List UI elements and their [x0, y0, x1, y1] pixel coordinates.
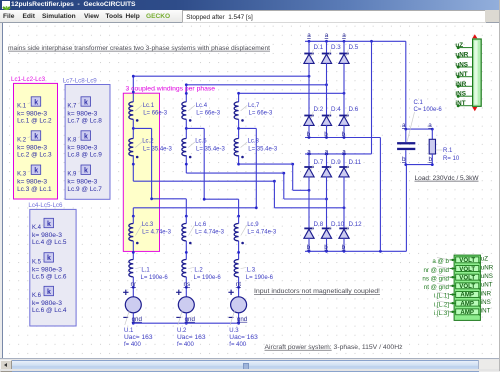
- menu bar: [0, 10, 500, 24]
- wire column B between Lc.4 and Lc.5: [185, 119, 188, 138]
- svg-text:iNT: iNT: [481, 308, 491, 315]
- svg-text:U.1: U.1: [124, 328, 134, 334]
- svg-text:k: k: [84, 168, 88, 175]
- svg-text:nr: nr: [131, 281, 137, 288]
- svg-text:D.3: D.3: [331, 44, 341, 51]
- svg-text:L= 190e-6: L= 190e-6: [246, 275, 274, 281]
- svg-text:ns: ns: [184, 281, 191, 288]
- wire bridge2 leg 344 mid: [343, 177, 345, 229]
- node nr: [131, 281, 137, 288]
- svg-text:C.1: C.1: [414, 100, 424, 106]
- node gnd: [132, 316, 143, 323]
- svg-text:Lc.9 @ Lc.7: Lc.9 @ Lc.7: [67, 187, 102, 193]
- frame 3 coupled windings yellow box: [123, 93, 159, 251]
- node b label below D.4: [324, 131, 328, 138]
- svg-text:k: k: [47, 289, 51, 296]
- svg-text:D.4: D.4: [331, 106, 341, 113]
- svg-text:AMP: AMP: [460, 300, 474, 307]
- ammeter AMP.7 input i.[L.3]: [434, 308, 491, 317]
- diode D.5: [339, 41, 359, 63]
- svg-text:k= 980e-3: k= 980e-3: [17, 180, 48, 186]
- svg-text:k: k: [34, 133, 38, 140]
- coupling group frame Lc4-Lc5-Lc6: [30, 209, 76, 326]
- diode D.12: [339, 221, 362, 252]
- inductor L.3: [234, 260, 273, 282]
- svg-text:b: b: [307, 244, 311, 251]
- svg-text:Lc.6: Lc.6: [195, 222, 207, 228]
- svg-text:a: a: [325, 32, 329, 39]
- coupling K.3: [17, 165, 52, 193]
- wire bridge1 leg 344 mid: [343, 63, 345, 116]
- svg-text:uNS: uNS: [481, 273, 493, 280]
- svg-text:D.7: D.7: [314, 159, 324, 166]
- text annotation input inductors: [254, 288, 380, 295]
- horizontal scrollbar: [0, 358, 500, 370]
- wire system2 phase from Lc.8 bottom to bridge 2 leg 1: [237, 155, 310, 191]
- wire tap A to Lc.6: [133, 128, 186, 216]
- diode D.8: [304, 221, 324, 252]
- wire phase R top riser and feed line 1 to bridge 1: [132, 75, 310, 102]
- voltmeter VOLT.1 input a @ b: [432, 256, 488, 265]
- svg-text:Lc.3 @ Lc.1: Lc.3 @ Lc.1: [17, 187, 52, 193]
- svg-text:L= 190e-6: L= 190e-6: [141, 275, 169, 281]
- text annotation load: [415, 175, 479, 182]
- svg-text:L= 35.4e-3: L= 35.4e-3: [143, 146, 173, 152]
- svg-text:Uac= 163: Uac= 163: [177, 335, 206, 341]
- svg-text:D.1: D.1: [314, 44, 324, 51]
- svg-text:uNR: uNR: [481, 264, 494, 271]
- svg-text:b: b: [429, 156, 433, 163]
- wire neutral bus gnd: [133, 322, 238, 324]
- svg-text:k: k: [34, 168, 38, 175]
- scope pin uZ: [455, 42, 472, 49]
- svg-text:k: k: [84, 133, 88, 140]
- svg-text:k= 980e-3: k= 980e-3: [17, 111, 48, 117]
- inductor L.1: [129, 260, 168, 282]
- svg-text:Lc.7 @ Lc.8: Lc.7 @ Lc.8: [67, 119, 102, 125]
- inductor Lc.1: [129, 102, 168, 122]
- wire column A Lc.3 to L.1 to U.1: [132, 215, 135, 325]
- svg-text:k: k: [47, 255, 51, 262]
- window title bar: [0, 0, 500, 10]
- wire node a link from bridge1 rail down to bridge2 rail: [371, 41, 373, 154]
- svg-text:k= 980e-3: k= 980e-3: [32, 267, 63, 273]
- svg-text:b: b: [324, 131, 328, 138]
- coupling K.4: [32, 218, 67, 246]
- svg-text:U.2: U.2: [177, 328, 187, 334]
- app icon: [2, 1, 10, 9]
- node b label below D.10: [324, 244, 328, 251]
- svg-text:K.6: K.6: [32, 293, 42, 299]
- svg-text:3 coupled windings per phase: 3 coupled windings per phase: [126, 85, 216, 92]
- wire tap B to Lc.9: [186, 128, 238, 216]
- svg-text:k= 980e-3: k= 980e-3: [67, 145, 98, 151]
- svg-text:VOLT: VOLT: [459, 257, 475, 264]
- svg-text:iNS: iNS: [481, 299, 491, 306]
- svg-text:Lc4-Lc5-Lc6: Lc4-Lc5-Lc6: [28, 202, 63, 209]
- wire system2 phase from Lc.5 bottom to bridge 2 leg 2: [185, 155, 328, 200]
- diode D.2: [304, 106, 324, 137]
- svg-text:k= 980e-3: k= 980e-3: [67, 111, 98, 117]
- svg-text:L.3: L.3: [247, 268, 256, 274]
- svg-text:Lc.8 @ Lc.9: Lc.8 @ Lc.9: [67, 153, 102, 159]
- svg-text:L= 66e-3: L= 66e-3: [143, 110, 168, 116]
- svg-text:a: a: [402, 122, 406, 129]
- svg-text:k= 980e-3: k= 980e-3: [32, 233, 63, 239]
- svg-text:iNR: iNR: [481, 290, 492, 297]
- scope pin uNS: [455, 62, 472, 69]
- coupling K.2: [17, 131, 52, 159]
- svg-text:D.9: D.9: [331, 159, 341, 166]
- inductor Lc.6: [182, 222, 225, 244]
- voltmeter VOLT.3 input ns @ gnd: [422, 273, 492, 282]
- svg-text:Lc.4: Lc.4: [196, 103, 208, 109]
- svg-text:nt: nt: [236, 281, 241, 288]
- measurement block container: [454, 255, 480, 320]
- diode D.9: [321, 154, 341, 177]
- coupling K.8: [67, 131, 102, 159]
- voltage source U.1: [123, 290, 153, 348]
- inductor Lc.9: [234, 222, 277, 244]
- wire system2 phase from Lc.2 bottom to bridge 2 leg 3: [132, 155, 345, 209]
- wire column C between Lc.7 and Lc.8: [237, 119, 240, 138]
- svg-text:Lc1-Lc2-Lc3: Lc1-Lc2-Lc3: [11, 76, 46, 83]
- wire phase T top riser and feed line 3 to bridge 1: [237, 92, 345, 102]
- svg-text:L= 66e-3: L= 66e-3: [249, 110, 274, 116]
- svg-text:f= 400: f= 400: [229, 342, 247, 348]
- svg-text:ns @ gnd: ns @ gnd: [422, 275, 449, 282]
- svg-text:uNT: uNT: [455, 71, 467, 78]
- svg-text:Lc.8: Lc.8: [248, 139, 260, 145]
- svg-text:k= 980e-3: k= 980e-3: [17, 145, 48, 151]
- svg-text:D.11: D.11: [349, 159, 362, 166]
- svg-text:iNR: iNR: [455, 81, 466, 88]
- scope pin iNR: [455, 81, 472, 88]
- wire column A between Lc.1 and Lc.2: [132, 119, 135, 138]
- svg-text:gnd: gnd: [185, 316, 196, 323]
- wire node a row capacitor to resistor: [404, 128, 433, 131]
- svg-text:a: a: [428, 122, 432, 129]
- svg-text:VOLT: VOLT: [459, 266, 475, 273]
- wire bridge1 leg 309 mid: [308, 63, 310, 116]
- diode D.1: [304, 41, 324, 63]
- inductor Lc.2: [129, 139, 173, 159]
- svg-text:gnd: gnd: [132, 316, 143, 323]
- svg-text:Lc.9: Lc.9: [247, 222, 259, 228]
- svg-text:b: b: [342, 244, 346, 251]
- wire node a to capacitor branch: [405, 41, 407, 129]
- svg-text:K.4: K.4: [32, 225, 42, 231]
- scope pin uNR: [455, 52, 472, 59]
- scope pin uNT: [455, 71, 472, 78]
- coupling K.9: [67, 165, 102, 193]
- voltage source U.3: [228, 290, 258, 348]
- svg-text:a: a: [307, 32, 311, 39]
- svg-text:uZ: uZ: [455, 42, 463, 49]
- wire bridge 1 top rail node a: [305, 40, 406, 43]
- svg-text:L= 4.74e-3: L= 4.74e-3: [142, 230, 172, 236]
- node b label below D.6: [342, 131, 346, 138]
- wire phase S top riser and feed line 2 to bridge 1: [185, 83, 328, 102]
- svg-text:b: b: [342, 131, 346, 138]
- svg-text:K.7: K.7: [67, 103, 77, 109]
- svg-text:L= 190e-6: L= 190e-6: [194, 275, 222, 281]
- svg-text:VOLT: VOLT: [459, 283, 475, 290]
- node a label above D.11: [342, 148, 346, 155]
- svg-text:Lc.1 @ Lc.2: Lc.1 @ Lc.2: [17, 119, 52, 125]
- svg-text:Lc.7: Lc.7: [248, 103, 260, 109]
- svg-text:Lc.5 @ Lc.6: Lc.5 @ Lc.6: [32, 275, 67, 281]
- node gnd: [237, 316, 248, 323]
- svg-text:iNS: iNS: [455, 91, 466, 98]
- svg-text:k: k: [34, 99, 38, 106]
- wire bridge 2 bottom rail node b: [305, 250, 406, 253]
- wire bridge 2 top rail node a: [305, 153, 372, 156]
- wire bridge1 leg 326 mid: [326, 63, 328, 116]
- svg-text:b: b: [402, 156, 406, 163]
- scope pin iNS: [455, 91, 472, 98]
- inductor Lc.5: [182, 139, 226, 159]
- ammeter AMP.5 input i.[L.1]: [434, 290, 492, 299]
- svg-text:D.6: D.6: [349, 106, 359, 113]
- svg-text:Lc.6 @ Lc.4: Lc.6 @ Lc.4: [32, 308, 67, 314]
- node b label below D.8: [307, 244, 311, 251]
- svg-text:i.[L.3]: i.[L.3]: [434, 310, 449, 317]
- inductor Lc.7: [234, 102, 273, 122]
- node b label below D.12: [342, 244, 346, 251]
- svg-text:Uac= 163: Uac= 163: [124, 335, 153, 341]
- coupling group title Lc7-Lc8-Lc9: [63, 77, 98, 84]
- svg-text:k: k: [47, 221, 51, 228]
- wire series link bridge1 b rail down to bridge2 b rail: [379, 138, 381, 252]
- svg-text:i.[L.2]: i.[L.2]: [434, 301, 449, 308]
- svg-text:K.2: K.2: [17, 137, 27, 143]
- svg-text:VOLT: VOLT: [459, 274, 475, 281]
- svg-text:uNS: uNS: [455, 62, 468, 69]
- svg-text:U.3: U.3: [229, 328, 239, 334]
- svg-text:D.10: D.10: [331, 221, 345, 228]
- text annotation mains side interphase transformer: [8, 45, 270, 52]
- node a label above D.9: [325, 148, 329, 155]
- svg-text:k: k: [84, 99, 88, 106]
- svg-text:K.8: K.8: [67, 137, 77, 143]
- svg-text:L= 35.4e-3: L= 35.4e-3: [248, 146, 278, 152]
- node ns: [184, 281, 191, 288]
- inductor L.2: [182, 260, 221, 282]
- svg-text:b: b: [307, 131, 311, 138]
- svg-text:R= 10: R= 10: [443, 156, 460, 162]
- node nt: [236, 281, 241, 288]
- svg-text:gnd: gnd: [237, 316, 248, 323]
- svg-text:b: b: [324, 244, 328, 251]
- node b label below D.2: [307, 131, 311, 138]
- wire node b row capacitor to resistor: [404, 163, 433, 166]
- svg-text:iNT: iNT: [455, 100, 465, 107]
- svg-text:L= 4.74e-3: L= 4.74e-3: [195, 230, 225, 236]
- voltmeter VOLT.2 input nr @ gnd: [423, 264, 493, 273]
- wire node b down to bridge2 bottom rail: [405, 165, 407, 252]
- svg-text:C= 100e-6: C= 100e-6: [414, 107, 443, 113]
- voltage source U.2: [176, 290, 206, 348]
- svg-text:k= 980e-3: k= 980e-3: [67, 180, 98, 186]
- svg-text:Lc.5: Lc.5: [195, 139, 207, 145]
- wire bridge2 leg 326 mid: [326, 177, 328, 229]
- coupling K.5: [32, 253, 67, 281]
- svg-text:uNT: uNT: [481, 282, 493, 289]
- svg-text:k= 980e-3: k= 980e-3: [32, 301, 63, 307]
- svg-text:K.9: K.9: [67, 172, 77, 178]
- svg-text:a: a: [342, 32, 346, 39]
- capacitor C.1: [397, 100, 442, 165]
- svg-text:D.12: D.12: [349, 221, 363, 228]
- diode D.10: [321, 221, 344, 252]
- node a label at capacitor: [402, 122, 432, 129]
- svg-text:Input inductors not magnetical: Input inductors not magnetically coupled…: [254, 288, 380, 295]
- node a label above D.7: [307, 148, 311, 155]
- coupling K.1: [17, 97, 52, 125]
- svg-text:K.3: K.3: [17, 172, 27, 178]
- ammeter AMP.6 input i.[L.2]: [434, 299, 491, 308]
- coupling group title Lc4-Lc5-Lc6: [28, 202, 63, 209]
- svg-text:f= 400: f= 400: [177, 342, 195, 348]
- wire bridge 1 bottom rail node b: [305, 136, 380, 139]
- inductor Lc.4: [182, 102, 221, 122]
- window title text: [11, 1, 136, 8]
- svg-text:L= 35.4e-3: L= 35.4e-3: [196, 146, 226, 152]
- diode D.7: [304, 154, 324, 177]
- node a label above D.5: [342, 32, 346, 39]
- svg-text:Uac= 163: Uac= 163: [229, 335, 258, 341]
- node gnd: [185, 316, 196, 323]
- svg-text:a @ b: a @ b: [432, 258, 449, 265]
- svg-text:i.[L.1]: i.[L.1]: [434, 293, 449, 300]
- svg-text:D.8: D.8: [314, 221, 324, 228]
- svg-text:L= 4.74e-3: L= 4.74e-3: [247, 230, 277, 236]
- inductor Lc.8: [234, 139, 278, 159]
- text annotation aircraft power system: [265, 344, 403, 351]
- node b label at capacitor: [402, 156, 433, 163]
- resistor R.1: [429, 129, 460, 165]
- coupling group title Lc1-Lc2-Lc3: [11, 76, 46, 83]
- svg-text:K.1: K.1: [17, 103, 27, 109]
- svg-text:R.1: R.1: [443, 148, 453, 154]
- svg-text:f= 400: f= 400: [124, 342, 142, 348]
- svg-text:AMP: AMP: [460, 309, 474, 316]
- svg-text:Load: 230Vdc / 5.3kW: Load: 230Vdc / 5.3kW: [415, 175, 479, 182]
- svg-text:L.1: L.1: [141, 268, 150, 274]
- svg-text:K.5: K.5: [32, 259, 42, 265]
- wire bridge2 leg 309 mid: [308, 177, 310, 229]
- svg-text:Lc.2 @ Lc.3: Lc.2 @ Lc.3: [17, 153, 52, 159]
- svg-text:L= 66e-3: L= 66e-3: [196, 110, 221, 116]
- svg-text:AMP: AMP: [460, 292, 474, 299]
- svg-text:L.2: L.2: [194, 268, 203, 274]
- wire column B Lc.6 to L.2 to U.2: [185, 215, 188, 325]
- diode D.11: [339, 154, 362, 177]
- wire tap C to Lc.3: [133, 128, 257, 216]
- svg-text:D.5: D.5: [349, 44, 359, 51]
- node a label above D.1: [307, 32, 311, 39]
- coupling group frame Lc7-Lc8-Lc9: [65, 85, 110, 200]
- coupling K.7: [67, 97, 102, 125]
- svg-text:mains side interphase transfor: mains side interphase transformer create…: [8, 45, 270, 52]
- svg-text:Lc.2: Lc.2: [142, 139, 154, 145]
- scope pin iNT: [455, 100, 472, 107]
- svg-text:uZ: uZ: [481, 256, 488, 263]
- svg-text:nr @ gnd: nr @ gnd: [423, 267, 449, 274]
- text annotation 3 coupled windings per phase: [126, 85, 216, 92]
- svg-text:Lc7-Lc8-Lc9: Lc7-Lc8-Lc9: [63, 77, 98, 84]
- svg-text:D.2: D.2: [314, 106, 324, 113]
- diode D.6: [339, 106, 359, 137]
- scope block SCOPE.1: [472, 34, 481, 111]
- diode D.3: [321, 41, 341, 63]
- voltmeter VOLT.4 input nt @ gnd: [424, 282, 493, 291]
- diode D.4: [321, 106, 341, 137]
- svg-text:uNR: uNR: [455, 52, 468, 59]
- coupling K.6: [32, 286, 67, 314]
- svg-text:Lc.3: Lc.3: [142, 222, 154, 228]
- svg-text:nt @ gnd: nt @ gnd: [424, 284, 450, 291]
- wire column C Lc.9 to L.3 to U.3: [237, 215, 240, 325]
- node a label above D.3: [325, 32, 329, 39]
- svg-text:Lc.1: Lc.1: [143, 103, 155, 109]
- svg-text:Lc.4 @ Lc.5: Lc.4 @ Lc.5: [32, 240, 67, 246]
- svg-text:Aircraft power system: 3-phase: Aircraft power system: 3-phase, 115V / 4…: [265, 344, 403, 351]
- coupling group frame Lc1-Lc2-Lc3: [14, 83, 58, 199]
- inductor Lc.3: [129, 222, 172, 244]
